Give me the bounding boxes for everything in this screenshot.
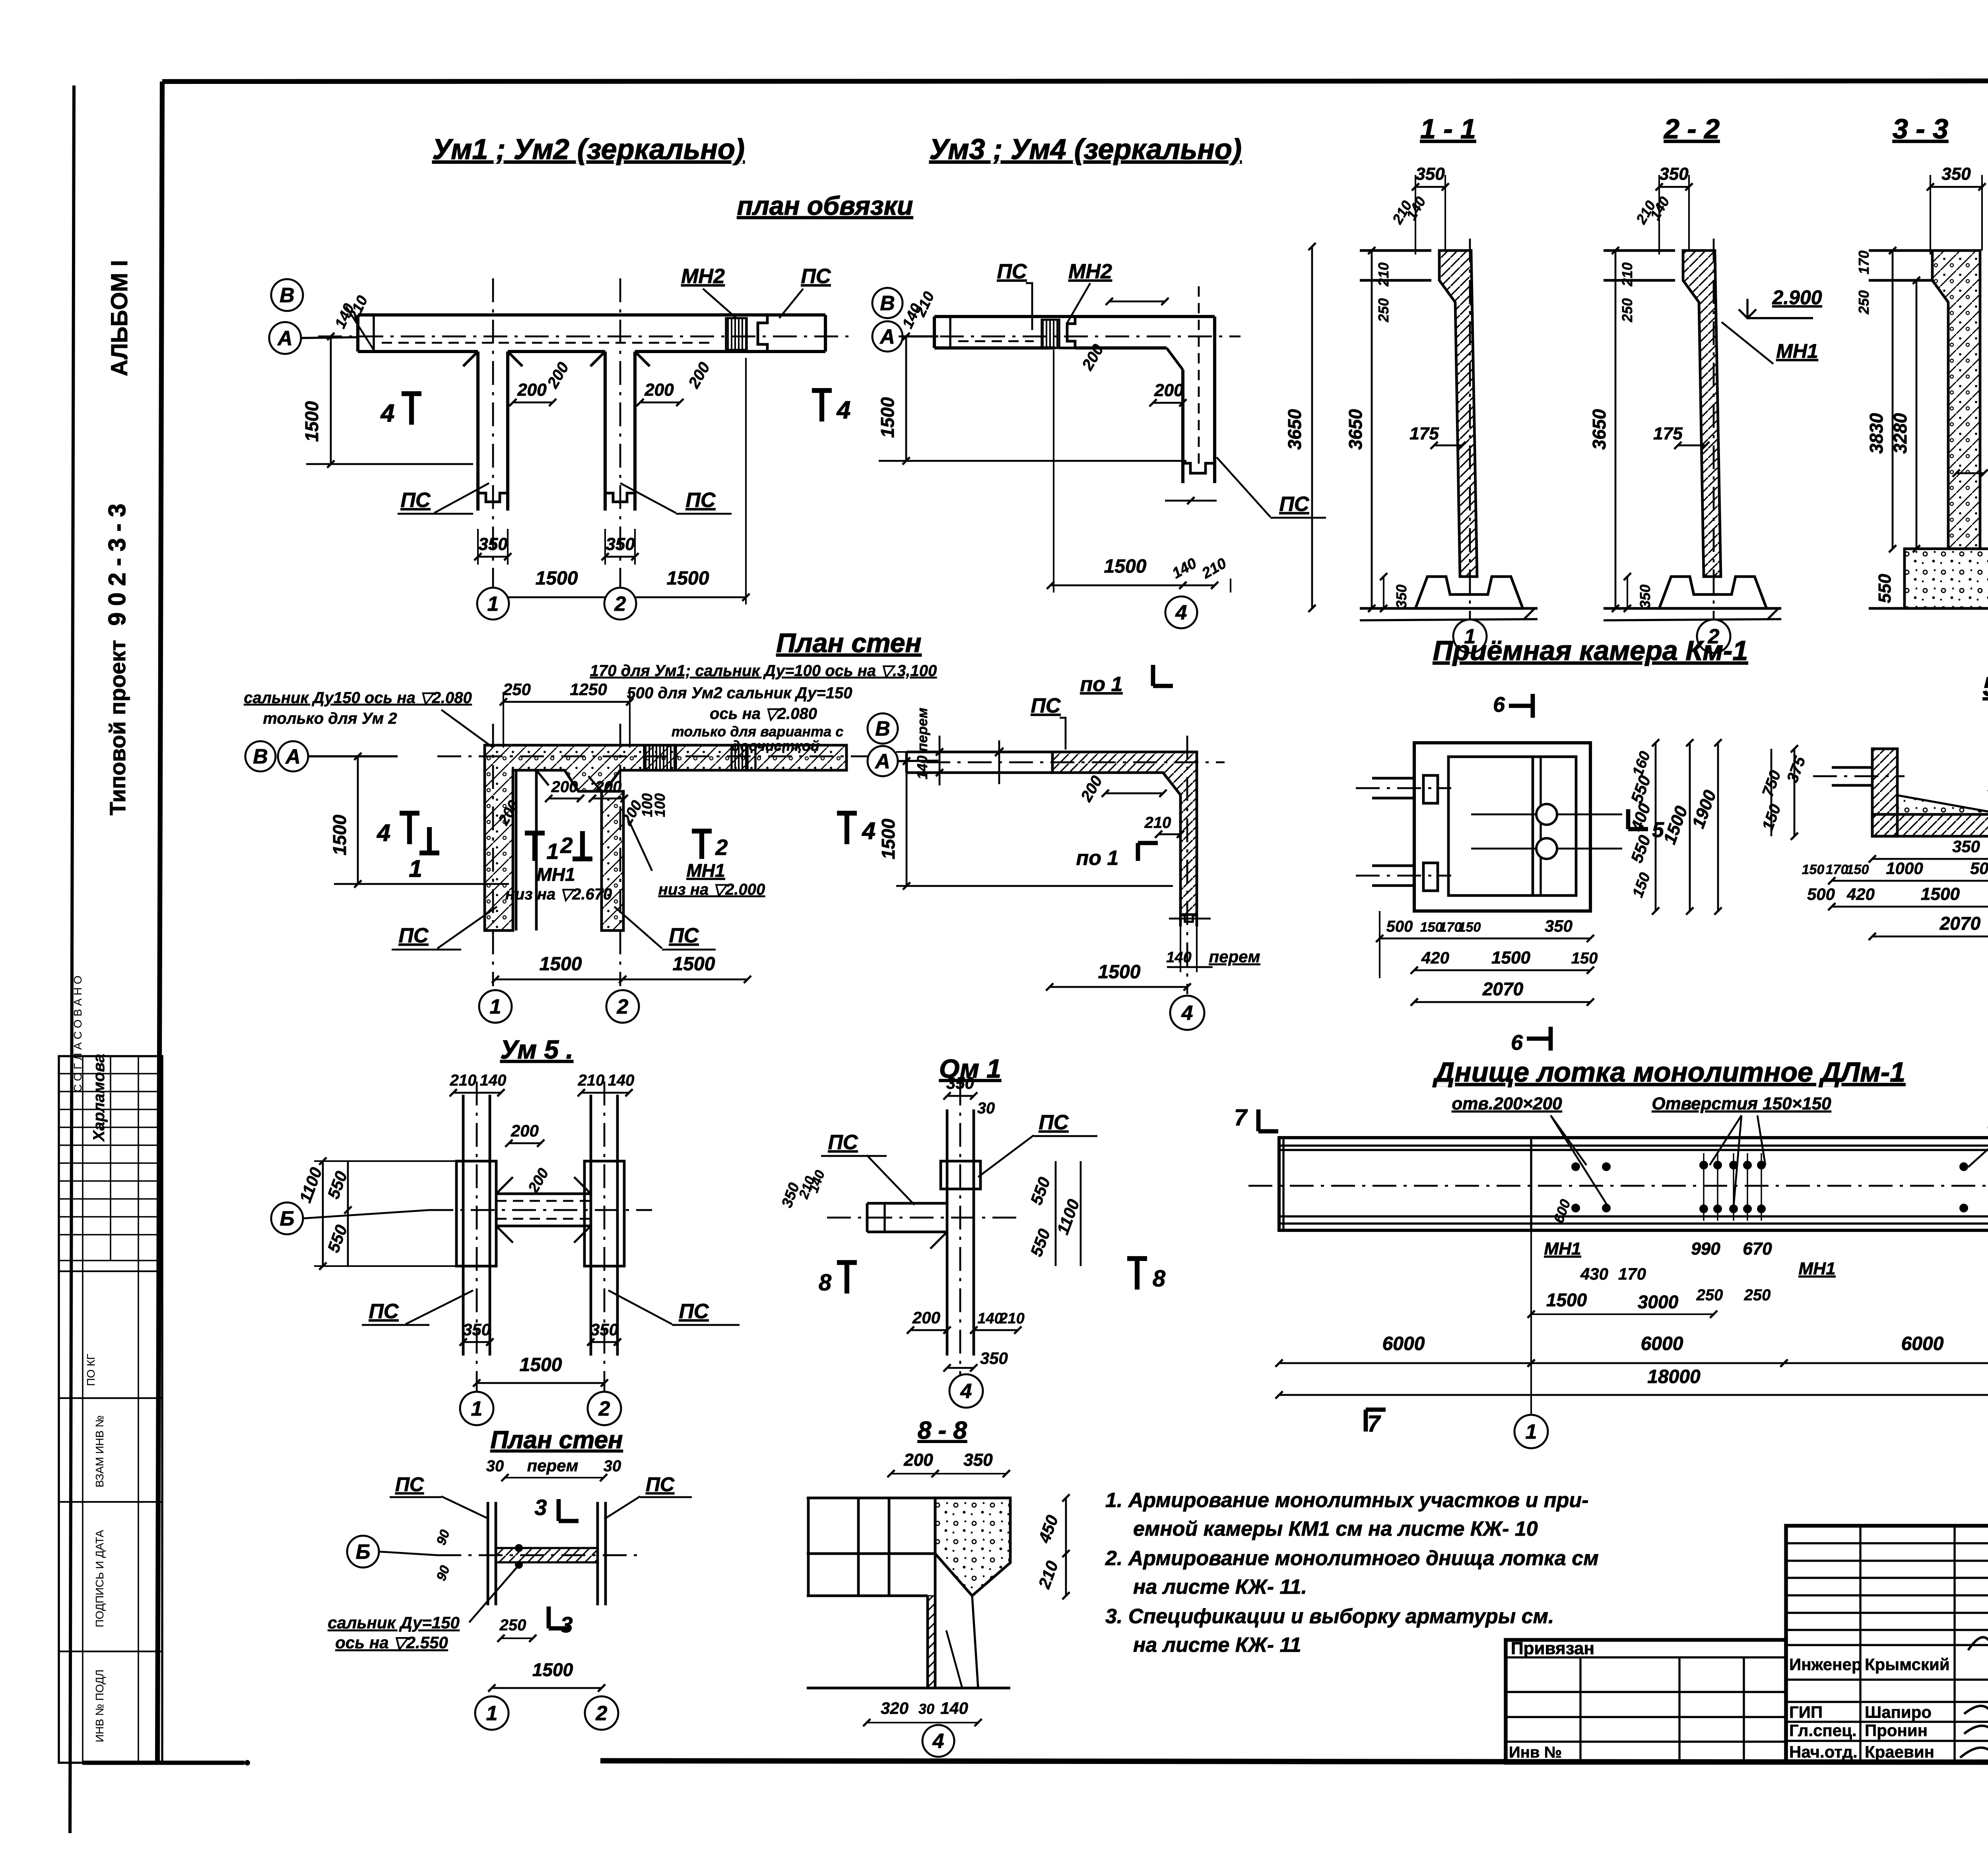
svg-text:200: 200 <box>517 380 547 400</box>
Um5 dims 350 <box>460 1320 621 1346</box>
svg-text:ПС: ПС <box>401 489 431 512</box>
svg-text:МН1: МН1 <box>1799 1259 1836 1278</box>
svg-text:550: 550 <box>1875 574 1895 603</box>
title block revision table <box>1786 1526 1988 1775</box>
svg-text:Ум3 ; Ум4 (зеркально): Ум3 ; Ум4 (зеркально) <box>929 134 1242 165</box>
drawing frame bottom <box>600 1761 1988 1763</box>
axis circle B Um5 <box>271 1202 303 1234</box>
svg-text:350: 350 <box>1941 164 1971 184</box>
dim 1500 fig Um3 bottom <box>1047 350 1186 592</box>
svg-text:430: 430 <box>1580 1265 1608 1283</box>
svg-text:Краевин: Краевин <box>1865 1742 1934 1761</box>
svg-text:1500: 1500 <box>1921 884 1960 904</box>
section 1-1 drawing <box>1345 164 1538 636</box>
Om1 right dims <box>1027 1161 1083 1266</box>
svg-text:2.900: 2.900 <box>1772 286 1822 309</box>
svg-text:Приёмная камера Км-1: Приёмная камера Км-1 <box>1433 635 1748 666</box>
drawing frame top <box>162 81 1988 82</box>
svg-text:350: 350 <box>1545 917 1573 935</box>
svg-text:3650: 3650 <box>1589 409 1609 450</box>
svg-text:ПОДПИСЬ И ДАТА: ПОДПИСЬ И ДАТА <box>93 1530 106 1627</box>
svg-text:только для Ум 2: только для Ум 2 <box>263 710 397 727</box>
Um5 dim 1500 <box>473 1354 608 1387</box>
svg-text:Привязан: Привязан <box>1511 1639 1594 1658</box>
dnische mid dims <box>1528 1197 1988 1318</box>
grid circle 2 plan sten <box>606 990 639 1023</box>
svg-text:200: 200 <box>551 778 578 796</box>
svg-text:2070: 2070 <box>1939 913 1981 934</box>
fig Um1 wall band plan <box>318 278 851 596</box>
svg-text:170: 170 <box>1618 1265 1646 1283</box>
svg-text:Инв №: Инв № <box>1509 1744 1562 1761</box>
grid circle 2 plan sten small <box>585 1696 618 1730</box>
svg-text:ПС: ПС <box>1279 493 1310 516</box>
svg-text:200: 200 <box>903 1450 933 1470</box>
label MN1 section 2-2 <box>1722 322 1818 364</box>
svg-text:1500: 1500 <box>1104 556 1147 577</box>
svg-text:МН1: МН1 <box>686 860 725 881</box>
svg-text:350: 350 <box>1952 837 1980 856</box>
svg-text:Пронин: Пронин <box>1865 1721 1928 1740</box>
svg-text:1500: 1500 <box>878 818 899 859</box>
annotation salnik top left plan sten <box>244 689 493 748</box>
svg-text:Ум1 ; Ум2 (зеркально): Ум1 ; Ум2 (зеркально) <box>432 134 745 165</box>
section markers T1 2T inside plan sten <box>525 831 592 864</box>
grid circle 4 Om1 <box>949 1374 983 1408</box>
annotation salnik plan sten small <box>328 1563 536 1652</box>
axis circle A fig Um3 <box>872 321 903 352</box>
svg-text:1: 1 <box>486 1702 498 1725</box>
Um5 PS labels <box>362 1290 740 1325</box>
svg-text:ПС: ПС <box>395 1473 424 1496</box>
section 8-8 right dims <box>1035 1494 1070 1599</box>
svg-text:МН1: МН1 <box>1776 340 1818 362</box>
Om1 T-plan drawing <box>827 1082 1018 1392</box>
svg-text:3280: 3280 <box>1890 413 1910 454</box>
svg-text:140: 140 <box>940 1699 968 1717</box>
PS labels plan sten small <box>390 1473 692 1519</box>
svg-text:Шапиро: Шапиро <box>1865 1703 1932 1721</box>
svg-text:8: 8 <box>819 1270 832 1296</box>
svg-text:на листе КЖ- 11.: на листе КЖ- 11. <box>1133 1575 1307 1599</box>
section marker 7 bottom <box>1366 1410 1386 1437</box>
svg-text:320: 320 <box>881 1699 909 1717</box>
labels holes dnische <box>1452 1094 1988 1207</box>
grid circle 4 fig Um3 <box>1165 596 1197 628</box>
svg-text:низ на ▽2.000: низ на ▽2.000 <box>658 881 765 898</box>
dim 350 stub1 <box>474 529 511 565</box>
grid circle 1 dnische <box>1530 1404 1532 1416</box>
svg-text:2 - 2: 2 - 2 <box>1663 113 1720 144</box>
left stamp table <box>59 1056 162 1763</box>
svg-text:250: 250 <box>499 1616 526 1634</box>
svg-text:3650: 3650 <box>1284 409 1305 450</box>
section 2-2 drawing <box>1589 164 1781 636</box>
axis circle V plan sten right <box>868 713 898 744</box>
grid circle 4 plan sten right <box>1170 996 1204 1030</box>
svg-text:ИНВ № ПОДЛ: ИНВ № ПОДЛ <box>93 1669 106 1742</box>
svg-text:30: 30 <box>977 1099 995 1117</box>
svg-text:ПС: ПС <box>1039 1111 1069 1134</box>
Km-1 bottom dim chains <box>1376 911 1598 1006</box>
svg-text:9 0 2 - 3 - 3: 9 0 2 - 3 - 3 <box>104 504 130 626</box>
svg-text:План стен: План стен <box>776 628 921 658</box>
svg-text:6000: 6000 <box>1382 1333 1425 1354</box>
section marker 6 bottom Km-1 <box>1511 1027 1551 1055</box>
label PS fig Um1 bottom left <box>398 483 489 514</box>
grid circle 2 fig Um1 <box>604 588 636 620</box>
svg-text:210: 210 <box>578 1072 605 1089</box>
axis circle V fig Um1 <box>271 279 303 311</box>
paper edge line left <box>70 85 74 1833</box>
svg-text:170: 170 <box>1826 862 1848 877</box>
svg-text:100: 100 <box>652 793 668 817</box>
svg-text:140: 140 <box>1166 949 1191 966</box>
stamp bottom edge line <box>82 1761 245 1765</box>
svg-text:ПС: ПС <box>646 1473 675 1496</box>
svg-text:3000: 3000 <box>1638 1292 1679 1312</box>
dim 140 210 fig Um3 bottom <box>1169 555 1231 592</box>
section marker 8 Om1 <box>819 1259 1166 1296</box>
dim 1500 1500 fig Um1 <box>489 358 749 604</box>
grid circle 1 Um5 <box>460 1392 493 1425</box>
svg-text:200: 200 <box>644 380 674 400</box>
svg-text:МН2: МН2 <box>1068 260 1112 283</box>
grid circle 2 under section 2-2 <box>1697 620 1730 653</box>
Um5 left dims <box>296 1158 461 1270</box>
svg-text:2: 2 <box>596 1702 608 1725</box>
svg-text:8 - 8: 8 - 8 <box>918 1417 967 1444</box>
svg-text:ПС: ПС <box>997 260 1027 283</box>
svg-text:30: 30 <box>604 1457 621 1475</box>
svg-text:250: 250 <box>1744 1286 1771 1304</box>
svg-text:план обвязки: план обвязки <box>737 191 913 220</box>
dims 140 210 fig Um1 left <box>332 293 374 350</box>
svg-text:1500: 1500 <box>532 1659 573 1680</box>
dims 200 350 8-8 <box>887 1450 1010 1477</box>
svg-text:4: 4 <box>836 396 850 424</box>
svg-text:1500: 1500 <box>520 1354 562 1375</box>
svg-text:перем: перем <box>914 708 930 752</box>
section marker 3 top <box>534 1495 579 1521</box>
grid circle 1 fig Um1 <box>477 588 509 620</box>
svg-text:Ум 5 .: Ум 5 . <box>500 1035 573 1064</box>
dim 200 fig Um3 b <box>1149 381 1186 406</box>
svg-text:по 1: по 1 <box>1080 673 1123 696</box>
svg-text:420: 420 <box>1846 885 1875 903</box>
svg-text:6: 6 <box>1511 1031 1523 1055</box>
dim 1500 plan sten right bottom <box>1046 962 1191 991</box>
dim 1500 vertical plan sten right <box>878 758 1173 890</box>
label 140 perem plan sten right <box>1166 947 1260 966</box>
svg-text:ось на ▽2.550: ось на ▽2.550 <box>335 1633 448 1652</box>
svg-text:ГИП: ГИП <box>1789 1703 1823 1721</box>
svg-text:200: 200 <box>595 778 622 796</box>
dim 1500 vertical plan sten <box>329 753 509 888</box>
svg-text:Днище лотка монолитное ДЛм-1: Днище лотка монолитное ДЛм-1 <box>1433 1057 1905 1088</box>
plan sten right L walls drawing <box>907 736 1225 994</box>
svg-text:210: 210 <box>999 1310 1024 1327</box>
svg-text:2: 2 <box>715 835 728 860</box>
Om1 PS labels <box>821 1111 1097 1205</box>
svg-text:3650: 3650 <box>1345 409 1366 450</box>
svg-text:350: 350 <box>590 1320 618 1339</box>
Um5 dim 200 <box>505 1121 552 1196</box>
annotation top right plan sten <box>590 662 937 754</box>
label MN1 inside plan sten <box>505 864 612 903</box>
svg-text:6: 6 <box>1493 693 1505 717</box>
svg-text:ПО КГ: ПО КГ <box>85 1354 97 1386</box>
svg-text:1500: 1500 <box>1546 1290 1587 1310</box>
dnische lotka strip plan <box>1248 1138 1988 1230</box>
svg-text:30: 30 <box>918 1701 934 1717</box>
svg-text:1: 1 <box>471 1397 483 1420</box>
svg-text:250: 250 <box>1856 290 1872 315</box>
svg-text:5 - 5: 5 - 5 <box>1983 672 1988 702</box>
svg-text:350: 350 <box>1637 585 1653 608</box>
svg-text:2070: 2070 <box>1482 979 1524 999</box>
section 8-8 bottom dims <box>863 1699 982 1726</box>
svg-text:1500: 1500 <box>1098 962 1141 983</box>
svg-text:3830: 3830 <box>1866 413 1887 454</box>
svg-text:140: 140 <box>914 756 930 779</box>
svg-text:1: 1 <box>546 839 559 864</box>
svg-text:ПС: ПС <box>801 265 831 288</box>
svg-text:4: 4 <box>932 1730 944 1753</box>
svg-text:ПС: ПС <box>399 924 429 947</box>
svg-text:А: А <box>277 327 293 350</box>
section 3-3 drawing <box>1856 164 1988 608</box>
plan sten walls drawing <box>437 724 887 986</box>
svg-text:на листе КЖ- 11: на листе КЖ- 11 <box>1133 1634 1301 1657</box>
dim 1500 1500 plan sten bottom <box>492 954 751 983</box>
svg-text:Гл.спец.: Гл.спец. <box>1789 1721 1857 1740</box>
svg-text:500 для Ум2 сальник Ду=150: 500 для Ум2 сальник Ду=150 <box>627 684 852 702</box>
svg-text:А: А <box>879 325 895 348</box>
axis circle A fig Um1 <box>269 322 301 354</box>
svg-text:420: 420 <box>1421 948 1449 967</box>
section marker 7 top left <box>1234 1105 1278 1131</box>
dim 1500 plan sten small <box>488 1659 605 1692</box>
svg-text:350: 350 <box>946 1074 974 1092</box>
svg-text:1500: 1500 <box>1491 948 1530 967</box>
section marker T2 right plan sten <box>692 831 728 860</box>
label PS fig Um3 bottom <box>1217 457 1326 518</box>
svg-text:1500: 1500 <box>667 568 709 589</box>
svg-text:А: А <box>874 750 890 773</box>
svg-text:МН2: МН2 <box>681 265 725 288</box>
svg-text:1500: 1500 <box>673 954 715 975</box>
Om1 dim 350 top <box>944 1074 995 1117</box>
dims 250 1250 plan sten <box>500 680 633 748</box>
svg-text:250: 250 <box>1375 298 1392 322</box>
svg-text:200: 200 <box>912 1308 940 1327</box>
dim 1500 vertical fig Um1 <box>301 333 473 468</box>
svg-text:2: 2 <box>560 833 573 858</box>
svg-text:990: 990 <box>1691 1239 1720 1259</box>
axis circle V fig Um3 <box>872 288 903 318</box>
svg-text:175: 175 <box>1653 424 1683 443</box>
axis circle B plan sten small <box>347 1536 379 1568</box>
svg-text:ВЗАМ ИНВ №: ВЗАМ ИНВ № <box>93 1415 106 1487</box>
svg-text:МН1: МН1 <box>1544 1239 1581 1259</box>
svg-text:В: В <box>880 292 895 315</box>
dim 200 plan sten right a <box>1077 773 1167 805</box>
svg-text:4: 4 <box>862 818 875 844</box>
svg-text:150: 150 <box>1846 862 1869 877</box>
svg-text:210: 210 <box>450 1072 477 1089</box>
svg-text:1500: 1500 <box>536 568 578 589</box>
svg-text:3: 3 <box>534 1495 547 1520</box>
svg-text:В: В <box>253 745 268 768</box>
drawing frame left <box>157 82 162 1763</box>
svg-text:350: 350 <box>1659 164 1689 184</box>
svg-text:ПС: ПС <box>686 489 716 512</box>
svg-text:150: 150 <box>1571 950 1598 967</box>
svg-text:4: 4 <box>1181 1002 1193 1025</box>
notes numbered list <box>1105 1489 1599 1657</box>
Om1 bottom dims <box>907 1308 1025 1371</box>
svg-text:1: 1 <box>1526 1420 1537 1443</box>
svg-text:только для варианта с: только для варианта с <box>672 723 843 740</box>
svg-text:200: 200 <box>511 1121 539 1140</box>
svg-text:1500: 1500 <box>329 814 350 855</box>
svg-text:В: В <box>875 717 890 740</box>
axis circle V plan sten <box>245 741 276 771</box>
svg-text:А: А <box>285 745 301 768</box>
grid circle 4 8-8 <box>922 1725 954 1757</box>
svg-text:500: 500 <box>1970 859 1988 878</box>
section marker 3 bottom <box>549 1606 573 1637</box>
svg-text:1. Армирование монолитных у: 1. Армирование монолитных участков и при… <box>1105 1489 1588 1512</box>
dnische holes dots <box>1571 1153 1988 1221</box>
svg-text:1: 1 <box>409 855 422 882</box>
svg-text:200: 200 <box>1154 381 1184 400</box>
svg-text:250: 250 <box>503 680 531 699</box>
svg-text:350: 350 <box>963 1450 993 1470</box>
svg-text:500: 500 <box>1807 885 1835 903</box>
dim 350 stub2 <box>602 529 639 565</box>
svg-text:8: 8 <box>1153 1266 1166 1292</box>
svg-text:2: 2 <box>598 1397 610 1420</box>
svg-text:170 для Ум1; сальник Ду=100 ос: 170 для Ум1; сальник Ду=100 ось на ▽.3,1… <box>590 662 937 680</box>
axis circle A plan sten right <box>868 746 898 776</box>
svg-text:140: 140 <box>480 1072 507 1089</box>
svg-text:350: 350 <box>463 1320 491 1339</box>
svg-text:250: 250 <box>1619 298 1635 322</box>
svg-text:1000: 1000 <box>1886 859 1923 878</box>
svg-text:670: 670 <box>1743 1239 1772 1259</box>
svg-text:Инженер: Инженер <box>1789 1655 1862 1674</box>
svg-text:ПС: ПС <box>1031 694 1061 717</box>
svg-text:350: 350 <box>980 1349 1008 1367</box>
title block privyazan box <box>1506 1639 1786 1763</box>
svg-text:План стен: План стен <box>490 1426 623 1454</box>
svg-text:ПС: ПС <box>828 1131 858 1154</box>
marker po 1 top <box>1080 665 1173 696</box>
svg-text:140: 140 <box>977 1310 1002 1327</box>
svg-text:1: 1 <box>490 995 501 1018</box>
grid circle 1 plan sten <box>479 990 512 1023</box>
section 5-5 bottom dims <box>1802 837 1988 940</box>
svg-text:1 - 1: 1 - 1 <box>1420 113 1476 144</box>
svg-text:7: 7 <box>1234 1105 1248 1131</box>
svg-text:ось на ▽2.080: ось на ▽2.080 <box>710 705 817 723</box>
svg-text:сальник Ду=150: сальник Ду=150 <box>328 1613 460 1632</box>
dnische 6000 dims <box>1276 1333 1988 1367</box>
svg-text:2: 2 <box>614 592 626 616</box>
dim 1500 vertical fig Um3 <box>877 333 1186 464</box>
dim 210 plan sten right b <box>1144 814 1184 838</box>
svg-text:2. Армирование монолитного д: 2. Армирование монолитного днища лотка с… <box>1105 1547 1599 1570</box>
svg-text:1500: 1500 <box>540 954 582 975</box>
svg-text:Б: Б <box>356 1540 371 1564</box>
elevation 2.900 section 2-2 <box>1739 286 1822 318</box>
svg-text:емной камеры КМ1 см на ли: емной камеры КМ1 см на листе КЖ- 10 <box>1133 1517 1538 1540</box>
svg-text:3: 3 <box>560 1612 573 1637</box>
svg-text:350: 350 <box>606 534 635 554</box>
svg-text:6000: 6000 <box>1641 1333 1683 1354</box>
svg-text:150: 150 <box>1458 920 1481 935</box>
svg-text:МН1: МН1 <box>536 864 575 885</box>
section marker T4 right plan sten <box>837 813 876 844</box>
grid circle 2 Um5 <box>588 1392 621 1425</box>
section marker 6 top Km-1 <box>1493 693 1533 718</box>
svg-text:210: 210 <box>1375 262 1392 287</box>
fig Um3 L-shaped wall band plan <box>899 286 1241 504</box>
svg-text:1500: 1500 <box>301 401 322 442</box>
section marker 4 left fig Um1 <box>380 394 421 427</box>
section marker 1 plan sten left <box>409 827 439 882</box>
svg-text:3. Спецификации и выборку: 3. Спецификации и выборку арматуры см. <box>1105 1605 1554 1628</box>
Km-1 right dim chains <box>1627 739 1722 915</box>
dnische 18000 dim <box>1276 1230 1988 1404</box>
svg-text:сальник Ду150 ось на ▽2.080: сальник Ду150 ось на ▽2.080 <box>244 689 472 707</box>
svg-text:350: 350 <box>1415 164 1445 184</box>
dim 200 fig Um1 b <box>637 380 683 406</box>
dims 30 perem 30 <box>486 1456 621 1481</box>
dim 3650 between Um3 and 1-1 <box>1284 243 1316 612</box>
svg-text:В: В <box>280 284 295 307</box>
svg-text:3 - 3: 3 - 3 <box>1893 113 1948 144</box>
svg-text:Б: Б <box>280 1207 295 1230</box>
svg-text:Отверстия 150×150: Отверстия 150×150 <box>1652 1094 1831 1113</box>
svg-text:6000: 6000 <box>1901 1333 1944 1354</box>
section 5-5 left dims <box>1759 745 1809 840</box>
section marker 4 plan sten <box>377 813 419 846</box>
svg-text:отв.200×200: отв.200×200 <box>1452 1094 1562 1113</box>
Um5 dims 210 140 top <box>450 1072 635 1096</box>
svg-text:350: 350 <box>478 534 508 554</box>
dim 200 fig Um1 a <box>509 380 556 406</box>
svg-text:170: 170 <box>1856 251 1872 274</box>
Um5 H-plan drawing <box>429 1082 652 1392</box>
svg-text:4: 4 <box>1175 601 1187 624</box>
svg-text:1250: 1250 <box>570 680 607 699</box>
dim 200 fig Um3 a <box>1079 298 1169 373</box>
label MN1 right plan sten <box>628 819 765 898</box>
label PS plan sten bottom left <box>392 907 497 950</box>
svg-text:210: 210 <box>1619 262 1635 287</box>
svg-text:2: 2 <box>617 995 629 1018</box>
svg-text:Крымский: Крымский <box>1865 1655 1950 1674</box>
svg-text:150: 150 <box>1802 862 1825 877</box>
svg-text:4: 4 <box>380 400 394 427</box>
label PS plan sten bottom right <box>614 907 716 950</box>
svg-text:АЛЬБОМ I: АЛЬБОМ I <box>107 260 132 376</box>
svg-text:ПС: ПС <box>369 1300 399 1323</box>
svg-text:низ на ▽2.670: низ на ▽2.670 <box>505 886 612 903</box>
